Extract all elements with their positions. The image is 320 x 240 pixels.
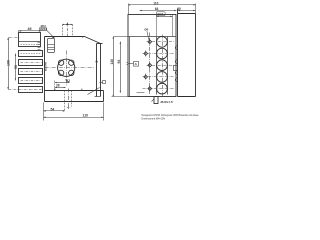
hidden hole centerline [68, 89, 70, 110]
svg-text:94: 94 [117, 60, 121, 64]
flange dim arrow below circle [65, 79, 67, 81]
small hole crosses vertical [146, 39, 150, 92]
fin block divider line [19, 41, 41, 43]
bottom dim 54 arrows [44, 110, 66, 111]
big bore 1 [157, 36, 168, 47]
dim 100 vertical line [8, 38, 10, 90]
fin1 centerline ext to dim [9, 37, 21, 39]
big bore 2 [157, 48, 168, 59]
strip tab [174, 66, 178, 71]
ext 177.2 top [177, 9, 179, 14]
side strip top edge [178, 13, 196, 15]
ext 156.5 [156, 15, 158, 37]
dim 49 ext left [18, 31, 20, 33]
port dot on plate [96, 61, 98, 62]
bolt hole SE [69, 70, 74, 75]
leader arrow [52, 36, 55, 38]
top dim 64 line [140, 10, 177, 12]
flag leader diagonal [88, 88, 100, 95]
hidden hole below base left line [64, 91, 66, 112]
stud below plate [154, 97, 158, 104]
svg-text:140: 140 [110, 59, 114, 65]
fin 1 dashed line [21, 53, 42, 55]
dim 56 vertical line [15, 54, 17, 81]
strip bump 1 [175, 46, 177, 50]
bottom dim 110 line [44, 117, 104, 119]
fin block dash row [21, 44, 41, 46]
svg-text:Drehmoment MA=10N: Drehmoment MA=10N [142, 117, 166, 120]
fin 5 [19, 87, 43, 93]
left dim 140 line [113, 37, 115, 97]
left dim 94 line [120, 42, 122, 93]
left dim 94 arrows [120, 42, 121, 93]
side strip left edge [177, 9, 179, 97]
ext 167.7 [156, 12, 165, 16]
surface flag box [103, 81, 106, 84]
svg-text:100: 100 [6, 60, 10, 66]
side strip bottom edge [178, 96, 196, 98]
bottom dims ext right [103, 103, 105, 121]
top dim 32.5 arrows [157, 16, 173, 17]
big bore 4 [157, 72, 168, 83]
ext horizontal row5 [137, 92, 145, 94]
svg-text:M10x1.5: M10x1.5 [161, 100, 173, 104]
strip bump 3 [175, 71, 177, 75]
cartouche line 2 [48, 47, 55, 49]
base right edge [103, 91, 105, 102]
fin 3 [19, 69, 43, 75]
tolerance frame box [40, 28, 47, 31]
small hole row5 [148, 87, 152, 91]
stud hatch [152, 99, 155, 102]
datum frame [134, 62, 139, 67]
chamfer arrow [82, 36, 84, 38]
ext 195 [195, 4, 197, 14]
top small dim center mark [66, 23, 69, 25]
ext horizontal bottom [112, 96, 129, 98]
top small dim arrows [62, 24, 73, 25]
svg-text:28: 28 [56, 84, 60, 88]
base top arrow 2 [81, 89, 82, 91]
top hidden line c [72, 25, 74, 37]
dim 42 line above base [55, 82, 70, 84]
base bottom edge [45, 101, 104, 103]
boss cartouche [48, 39, 55, 53]
main body left edge [44, 37, 46, 91]
mounting plate edge-on right line [100, 44, 102, 97]
dim 28 line above base [55, 87, 66, 89]
slot right line [167, 37, 169, 95]
top hidden line a [62, 25, 64, 37]
bolt hole NE [69, 60, 74, 65]
ext horizontal top [114, 36, 129, 38]
plate top short edge [97, 43, 103, 45]
svg-text:54: 54 [51, 107, 55, 111]
svg-text:Ø8.8: Ø8.8 [41, 25, 47, 28]
bottom dim 54 line [44, 110, 65, 112]
dim 56 arrows [15, 54, 16, 81]
cartouche line 3 [48, 49, 55, 51]
svg-text:49: 49 [28, 27, 32, 31]
chamfer top right [85, 37, 101, 44]
small hole row2 [144, 52, 148, 56]
big bore 5 [157, 83, 168, 94]
hidden hole below base right line [71, 91, 73, 107]
ext line x54.9 [54, 81, 56, 91]
hole label leader arrow [148, 38, 150, 41]
fin 5 centerline extended left [9, 89, 42, 91]
dim 49 line [19, 30, 41, 32]
base top edge [45, 90, 104, 92]
leader to top edge [47, 30, 55, 38]
svg-text:32.5: 32.5 [157, 12, 163, 16]
hole label leader [147, 31, 149, 39]
svg-text:42: 42 [67, 79, 71, 83]
fin 4 centerline [21, 80, 42, 82]
small hole row1 [148, 40, 152, 44]
datum tab lower [127, 64, 129, 66]
fin 2 centerline [21, 62, 42, 64]
svg-text:Ø20h6: Ø20h6 [40, 29, 48, 31]
big bore 3 [157, 60, 168, 71]
fin 1 [19, 51, 43, 57]
strip bump 4 [175, 78, 177, 82]
dim 42 arrows [55, 82, 70, 83]
slot left line [156, 37, 158, 95]
svg-text:30: 30 [177, 7, 181, 11]
small hole column centerline [149, 33, 151, 95]
dim 49 arrows [19, 30, 41, 31]
big flange circle [58, 59, 75, 76]
main body top edge [45, 36, 85, 38]
circle horizontal centerline [45, 67, 95, 69]
mounting plate edge-on left line [96, 44, 98, 97]
svg-text:110: 110 [153, 1, 158, 5]
plate inner step line [129, 36, 177, 38]
circle vertical centerline [66, 51, 68, 86]
top small dim line [63, 24, 73, 26]
fin 4 [19, 78, 43, 84]
thread ladder marks [38, 43, 41, 50]
fin 2 [19, 60, 43, 66]
svg-text:110: 110 [83, 114, 89, 118]
base left edge [44, 91, 46, 102]
datum tab upper [127, 62, 129, 64]
svg-text:Ø9: Ø9 [144, 28, 148, 32]
small cross mark under base [67, 106, 70, 109]
top dim 64 arrows [140, 10, 177, 11]
cartouche line 1 [48, 44, 55, 46]
left view: fin block outline [19, 33, 41, 47]
strip bump 2 [175, 60, 177, 64]
plate outline [128, 15, 176, 97]
ext 172.8 [172, 15, 174, 37]
side strip right edge [195, 14, 197, 97]
left dim 140 arrows [113, 36, 114, 97]
step line right of plate [95, 96, 101, 98]
bolt hole NW [58, 60, 63, 65]
plate inner left line [129, 37, 131, 97]
top dim 110 line [129, 4, 196, 6]
svg-text:64: 64 [155, 7, 159, 11]
bottom dim 110 arrows [44, 117, 104, 118]
flag leader horizontal [100, 82, 103, 84]
bore column centerline [162, 35, 164, 97]
fin 3 centerline [21, 71, 42, 73]
top dim 32.5 line [157, 16, 173, 18]
stud bottom tick [154, 103, 159, 105]
ext 128 top [128, 4, 130, 15]
top dim 20 arrows [178, 10, 195, 11]
bottom dims ext left [43, 103, 45, 121]
dim 28 arrows [55, 87, 66, 88]
datum leader [129, 63, 134, 65]
top dim 20 line [178, 10, 196, 12]
svg-text:56: 56 [14, 65, 18, 69]
base top arrow 1 [54, 89, 55, 91]
svg-text:Ø20h6: Ø20h6 [43, 61, 47, 71]
svg-text:A: A [135, 62, 138, 66]
small hole row3 [148, 63, 152, 67]
bolt hole SW [58, 70, 63, 75]
top dim 110 arrows [128, 4, 196, 5]
small hole row4 [144, 75, 148, 79]
top centerline b [67, 23, 69, 37]
dim 100 arrows [7, 38, 8, 90]
row centerlines [143, 42, 175, 89]
